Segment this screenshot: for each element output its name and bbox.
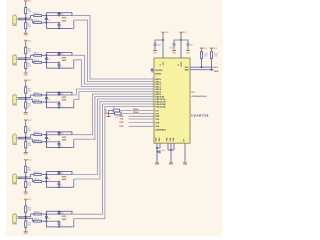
capacitor C5b (top, inside box) — [58, 171, 60, 174]
node filter in+ 6 — [46, 213, 48, 215]
node filter in+ 4 — [46, 134, 48, 136]
svg-text:GND: GND — [169, 164, 174, 166]
wire GND pins down — [156, 143, 158, 150]
svg-text:1n: 1n — [48, 178, 50, 180]
wire EP pin down — [184, 143, 186, 162]
capacitor C6c (bottom, inside box) — [58, 221, 60, 223]
wire node B1 jog down to filter line — [26, 20, 34, 23]
power VCC symbol block 5 — [24, 159, 27, 163]
wire R12 to ground — [25, 227, 27, 230]
svg-text:GND: GND — [24, 233, 29, 235]
svg-text:GND: GND — [155, 164, 160, 166]
capacitor C4b (top, inside box) — [58, 131, 60, 134]
wire R3 to node A2 — [25, 54, 27, 58]
svg-text:1n: 1n — [60, 225, 62, 227]
resistor R23 (series, horizontal bottom) — [34, 101, 42, 103]
svg-text:2k2: 2k2 — [28, 145, 31, 147]
wire block 1 output B to IC pin — [74, 20, 154, 81]
svg-text:10k: 10k — [28, 11, 31, 13]
svg-text:DTR: DTR — [120, 122, 125, 124]
wire rail 2 to C11 — [181, 40, 188, 43]
ground crystal — [107, 116, 111, 117]
wire rail 1 to C9 — [155, 40, 163, 43]
svg-text:XT1: XT1 — [155, 110, 158, 112]
wire node A2 jog up to filter line — [26, 55, 34, 58]
svg-text:XTAL1: XTAL1 — [133, 108, 139, 111]
ground IC 2 — [169, 162, 173, 163]
resistor R2 (mic load, vertical) — [25, 23, 27, 29]
resistor R5 (mic bias, vertical) — [25, 87, 27, 93]
microphone MIC2 — [12, 55, 16, 63]
wire filter line bottom inside 4 — [46, 141, 59, 143]
svg-text:100n: 100n — [169, 47, 173, 49]
svg-text:10k: 10k — [28, 209, 31, 211]
capacitor C1c (bottom, inside box) — [58, 23, 60, 25]
svg-text:ATMEGA328-AU: ATMEGA328-AU — [192, 95, 208, 98]
resistor R16 (series, horizontal top) — [34, 213, 42, 215]
filter network box U5 — [46, 172, 72, 188]
capacitor C6b (top, inside box) — [58, 210, 60, 213]
wire box bottom tap 3 — [72, 100, 74, 108]
wire node B2 to R4 — [25, 60, 27, 63]
svg-text:R14 1k: R14 1k — [34, 132, 40, 134]
node filter in- 5 — [46, 181, 48, 183]
svg-text:X1: X1 — [113, 107, 115, 109]
capacitor C3a (across inputs) — [45, 95, 47, 97]
node B5 — [25, 178, 27, 180]
resistor R13 (series, horizontal top) — [34, 94, 42, 96]
svg-text:AVCC: AVCC — [180, 61, 183, 67]
wire R2 to ground — [25, 29, 27, 32]
wire node B3 jog down to filter line — [26, 99, 34, 102]
wire R4 to ground — [25, 69, 27, 72]
wire MIC2 pin- to node B2 — [18, 59, 26, 61]
svg-text:16M: 16M — [105, 113, 109, 115]
wire R21 to box — [42, 22, 47, 24]
wire MIC3 pin- to node B3 — [18, 98, 26, 100]
power VCC symbol block 4 — [24, 119, 27, 123]
svg-text:1n: 1n — [48, 218, 50, 220]
wire filter line bottom inside 5 — [46, 181, 59, 183]
wire IC SDA to pull-up — [190, 69, 214, 71]
node filter in+ 1 — [46, 15, 48, 17]
wire C10 to ground — [173, 46, 175, 50]
svg-text:DTR: DTR — [155, 122, 160, 124]
wire block 4 output B to IC pin — [74, 97, 154, 140]
svg-text:10k: 10k — [28, 51, 31, 53]
capacitor C2a (across inputs) — [45, 55, 47, 57]
wire R9 to node A5 — [25, 173, 27, 177]
wire R16 to box — [42, 213, 47, 215]
svg-text:R23 1k: R23 1k — [34, 100, 40, 102]
power VCC symbol R13 — [200, 48, 203, 52]
resistor R22 (series, horizontal bottom) — [34, 62, 42, 64]
wire R12 to box — [42, 54, 47, 56]
ground block 6 — [24, 231, 28, 232]
microphone MIC3 — [12, 95, 16, 103]
ground block 5 — [24, 191, 28, 192]
svg-text:RXD: RXD — [155, 116, 160, 118]
wire block 6 output A to IC pin — [72, 104, 154, 214]
wire XTAL2 to IC — [121, 113, 154, 115]
svg-text:18: 18 — [160, 64, 162, 66]
ground C10 — [172, 49, 176, 50]
resistor R15 (series, horizontal top) — [34, 174, 42, 176]
wire MIC5 pin+ to node A5 — [18, 176, 26, 178]
wire VCC to R11 — [25, 203, 27, 206]
svg-text:RI/PD1: RI/PD1 — [155, 73, 161, 75]
svg-text:R16 1k: R16 1k — [34, 212, 40, 214]
wire to ground 2 — [170, 150, 172, 162]
capacitor C1a (across inputs) — [45, 16, 47, 18]
node GND join 2 — [170, 149, 172, 151]
node VCC rail 2 — [180, 39, 182, 41]
capacitor C11 (decoupling) — [187, 44, 190, 45]
svg-text:GND: GND — [183, 164, 188, 166]
wire filter line bottom inside 2 — [46, 61, 59, 63]
capacitor C9 (decoupling) — [154, 44, 157, 45]
svg-text:TXD: TXD — [155, 119, 159, 121]
op IC1 microcontroller body — [154, 58, 190, 143]
wire IC VCC pin to rail — [162, 36, 164, 58]
resistor R1 (mic bias, vertical) — [25, 8, 27, 14]
wire node B1 to R2 — [25, 20, 27, 23]
resistor R3 (mic bias, vertical) — [25, 47, 27, 53]
resistor R7 (mic bias, vertical) — [25, 127, 27, 133]
wire box bottom tap 4 — [72, 139, 74, 147]
node VCC rail 1 — [162, 39, 164, 41]
svg-text:WM61: WM61 — [12, 104, 17, 106]
svg-text:10k: 10k — [214, 55, 217, 57]
svg-text:2k2: 2k2 — [28, 105, 31, 107]
wire R14 to box — [42, 134, 47, 136]
microphone MIC4 — [12, 135, 16, 143]
svg-text:1n: 1n — [60, 106, 62, 108]
wire R14 up — [211, 58, 213, 69]
power VCC symbol 1 — [162, 32, 165, 36]
svg-text:R25 1k: R25 1k — [34, 179, 40, 181]
capacitor C4a (across inputs) — [45, 135, 47, 137]
wire node B6 jog down to filter line — [26, 218, 34, 221]
wire C9 to ground — [154, 46, 156, 50]
node A3 — [25, 97, 27, 99]
filter network box U3 — [46, 92, 72, 108]
wire node A4 jog up to filter line — [26, 135, 34, 138]
wire IC AVCC pin to rail — [180, 36, 182, 58]
wire node B3 to R6 — [25, 99, 27, 102]
wire R5 to node A3 — [25, 93, 27, 97]
node filter in- 2 — [46, 62, 48, 64]
svg-text:1n: 1n — [60, 27, 62, 29]
wire MIC2 pin+ to node A2 — [18, 57, 26, 59]
svg-text:R21 1k: R21 1k — [34, 20, 40, 22]
capacitor C15 (crystal) — [115, 112, 121, 115]
resistor R13 (pull-up) — [200, 52, 202, 59]
svg-text:SCK: SCK — [120, 126, 125, 128]
capacitor C2c (bottom, inside box) — [58, 62, 60, 64]
wire R7 to node A4 — [25, 133, 27, 137]
node filter in- 4 — [46, 141, 48, 143]
node A5 — [25, 176, 27, 178]
wire R24 to box — [42, 141, 47, 143]
ground IC 3 — [183, 162, 187, 163]
svg-text:GND: GND — [24, 154, 29, 156]
capacitor C10 (decoupling) — [173, 44, 176, 45]
ground C11 — [186, 49, 190, 50]
capacitor C3b (top, inside box) — [58, 91, 60, 94]
wire MIC5 pin- to node B5 — [18, 178, 26, 180]
wire MIC1 pin+ to node A1 — [18, 17, 26, 19]
wire XTAL1 to IC — [120, 110, 154, 112]
capacitor C3c (bottom, inside box) — [58, 102, 60, 104]
wire filter line bottom inside 1 — [46, 22, 59, 24]
wire R6 to ground — [25, 108, 27, 111]
wire box bottom tap 1 — [72, 20, 74, 28]
node filter in+ 3 — [46, 94, 48, 96]
microphone MIC1 — [12, 16, 16, 24]
wire block 4 output A to IC pin — [72, 94, 154, 135]
node GND join 1 — [156, 147, 158, 149]
svg-text:WM61: WM61 — [12, 25, 17, 27]
node A1 — [25, 17, 27, 19]
resistor R11 (mic bias, vertical) — [25, 206, 27, 212]
svg-text:XTAL2: XTAL2 — [133, 111, 139, 114]
wire block 6 output B to IC pin — [74, 107, 154, 219]
wire net SCK to IC — [129, 125, 155, 127]
svg-text:10k: 10k — [204, 55, 207, 57]
node pull-up R14 — [211, 69, 213, 71]
wire node A5 jog up to filter line — [26, 174, 34, 177]
wire node B6 to R12 — [25, 218, 27, 221]
wire filter line top inside 1 — [46, 15, 72, 17]
wire R13 to box — [42, 94, 47, 96]
IC1 pin RESET stub — [152, 69, 154, 71]
node B1 — [25, 19, 27, 21]
filter network box U1 — [46, 13, 72, 29]
svg-text:R24 1k: R24 1k — [34, 139, 40, 141]
svg-text:USART28: USART28 — [191, 114, 209, 118]
resistor R24 (series, horizontal bottom) — [34, 141, 42, 143]
svg-text:PD6/OC0A: PD6/OC0A — [155, 105, 166, 108]
wire R23 to box — [42, 101, 47, 103]
svg-text:1n: 1n — [48, 99, 50, 101]
svg-text:XT2: XT2 — [155, 113, 158, 115]
node A2 — [25, 57, 27, 59]
crystal Q1 body — [113, 109, 119, 112]
wire node B2 jog down to filter line — [26, 60, 34, 63]
wire R10 to ground — [25, 188, 27, 191]
capacitor C5a (across inputs) — [45, 174, 47, 176]
svg-text:GND: GND — [24, 193, 29, 195]
node filter in- 6 — [46, 220, 48, 222]
wire node B4 jog down to filter line — [26, 139, 34, 142]
wire VCC to R7 — [25, 124, 27, 127]
svg-text:TXD: TXD — [120, 119, 124, 121]
wire node A6 jog up to filter line — [26, 214, 34, 217]
power VCC symbol R14 — [210, 48, 213, 52]
svg-text:GND: GND — [24, 114, 29, 116]
capacitor C5c (bottom, inside box) — [58, 182, 60, 184]
wire R1 to node A1 — [25, 14, 27, 18]
wire to ground 1 — [156, 151, 158, 162]
capacitor C4c (bottom, inside box) — [58, 142, 60, 144]
svg-text:RO/PD0: RO/PD0 — [155, 70, 162, 72]
ground block 2 — [24, 72, 28, 73]
svg-text:1n: 1n — [60, 185, 62, 187]
capacitor C6a (across inputs) — [45, 214, 47, 216]
resistor R4 (mic load, vertical) — [25, 62, 27, 68]
svg-text:2k2: 2k2 — [28, 224, 31, 226]
svg-text:20: 20 — [178, 64, 180, 66]
resistor R10 (mic load, vertical) — [25, 181, 27, 187]
wire R25 to box — [42, 181, 47, 183]
wire box bottom tap 2 — [72, 60, 74, 68]
wire node A1 jog up to filter line — [26, 16, 34, 19]
wire node B5 to R10 — [25, 179, 27, 182]
wire R8 to ground — [25, 148, 27, 151]
resistor R8 (mic load, vertical) — [25, 142, 27, 148]
wire MIC3 pin+ to node A3 — [18, 97, 26, 99]
power VCC symbol block 3 — [24, 80, 27, 84]
wire node A3 jog up to filter line — [26, 95, 34, 98]
resistor R14 (pull-up) — [210, 52, 212, 59]
svg-text:GND: GND — [159, 137, 161, 142]
wire MIC4 pin- to node B4 — [18, 138, 26, 140]
filter network box U6 — [46, 211, 72, 227]
wire VCC to R9 — [25, 163, 27, 166]
svg-text:1n: 1n — [60, 66, 62, 68]
wire block 3 output A to IC pin — [72, 89, 154, 95]
microphone MIC6 — [12, 214, 16, 222]
node AREF — [156, 151, 158, 153]
schematic sheet background — [7, 0, 223, 236]
svg-text:100n: 100n — [161, 150, 165, 152]
svg-text:1n: 1n — [60, 146, 62, 148]
svg-text:SDA: SDA — [214, 70, 219, 73]
svg-text:R15 1k: R15 1k — [34, 172, 40, 174]
wire block 5 output A to IC pin — [72, 99, 154, 175]
power VCC symbol block 6 — [24, 199, 27, 203]
svg-text:2k2: 2k2 — [28, 66, 31, 68]
svg-text:R13 1k: R13 1k — [34, 92, 40, 94]
svg-text:10k: 10k — [28, 130, 31, 132]
wire block 2 output B to IC pin — [74, 60, 154, 87]
svg-text:GND: GND — [24, 74, 29, 76]
svg-text:10k: 10k — [28, 90, 31, 92]
node filter in+ 5 — [46, 174, 48, 176]
wire IC SCL to pull-up — [190, 66, 214, 68]
wire filter line bottom inside 3 — [46, 101, 59, 103]
wire VCC to R1 — [25, 5, 27, 8]
node A4 — [25, 136, 27, 138]
wire R11 to node A6 — [25, 212, 27, 216]
svg-text:2k2: 2k2 — [28, 26, 31, 28]
resistor R11 (series, horizontal top) — [34, 15, 42, 17]
capacitor C1b (top, inside box) — [58, 12, 60, 15]
svg-text:1n: 1n — [48, 20, 50, 22]
wire VCC to R3 — [25, 44, 27, 47]
svg-text:100n: 100n — [157, 44, 161, 46]
node B3 — [25, 98, 27, 100]
power VCC symbol block 2 — [24, 40, 27, 44]
wire MIC6 pin+ to node A6 — [18, 216, 26, 218]
svg-text:WM61: WM61 — [12, 144, 17, 146]
node B4 — [25, 138, 27, 140]
ground C9 — [153, 49, 157, 50]
svg-text:R26 1k: R26 1k — [34, 219, 40, 221]
node B2 — [25, 59, 27, 61]
wire filter line top inside 6 — [46, 213, 72, 215]
ground IC 1 — [155, 162, 159, 163]
wire node B4 to R8 — [25, 139, 27, 142]
wire block 2 output A to IC pin — [72, 55, 154, 84]
wire net RXD to IC — [129, 115, 155, 117]
svg-text:SDA: SDA — [185, 69, 190, 72]
wire block 5 output B to IC pin — [74, 102, 154, 180]
wire filter line top inside 5 — [46, 173, 72, 175]
resistor R26 (series, horizontal bottom) — [34, 220, 42, 222]
svg-text:GND: GND — [156, 137, 158, 142]
wire block 3 output B to IC pin — [74, 92, 154, 100]
svg-text:R22 1k: R22 1k — [34, 60, 40, 62]
resistor R6 (mic load, vertical) — [25, 102, 27, 108]
svg-text:10u: 10u — [190, 44, 193, 46]
node B6 — [25, 217, 27, 219]
wire filter line top inside 3 — [46, 94, 72, 96]
wire R26 to box — [42, 220, 47, 222]
resistor R14 (series, horizontal top) — [34, 134, 42, 136]
svg-text:2k2: 2k2 — [28, 185, 31, 187]
svg-text:RXD: RXD — [120, 116, 125, 118]
wire R11 to box — [42, 15, 47, 17]
svg-text:WM61: WM61 — [12, 223, 17, 225]
node pull-up R13 — [201, 66, 203, 68]
capacitor C12 (AREF) — [157, 151, 158, 153]
wire rail 2 to C10 — [174, 40, 181, 43]
node filter in- 3 — [46, 101, 48, 103]
wire filter line bottom inside 6 — [46, 220, 59, 222]
microphone MIC5 — [12, 175, 16, 183]
resistor R12 (series, horizontal top) — [34, 54, 42, 56]
wire VCC to R5 — [25, 84, 27, 87]
wire R15 to box — [42, 173, 47, 175]
filter network box U4 — [46, 132, 72, 148]
filter network box U2 — [46, 53, 72, 69]
wire net TXD to IC — [129, 118, 155, 120]
wire R13 up — [201, 58, 203, 67]
wire crystal left join — [111, 110, 114, 112]
svg-text:10k: 10k — [28, 170, 31, 172]
svg-text:R12 1k: R12 1k — [34, 53, 40, 55]
wire net DTR to IC — [129, 122, 155, 124]
wire MIC4 pin+ to node A4 — [18, 136, 26, 138]
ground block 4 — [24, 151, 28, 152]
resistor R12 (mic load, vertical) — [25, 221, 27, 227]
ground block 3 — [24, 112, 28, 113]
svg-text:WM61: WM61 — [12, 65, 17, 67]
wire node B5 jog down to filter line — [26, 179, 34, 182]
wire VSS pins down — [167, 143, 169, 150]
wire filter line top inside 4 — [46, 134, 72, 136]
power VCC symbol block 1 — [24, 0, 27, 4]
node filter in- 1 — [46, 22, 48, 24]
resistor R9 (mic bias, vertical) — [25, 166, 27, 172]
resistor R25 (series, horizontal bottom) — [34, 181, 42, 183]
svg-text:C15: C15 — [115, 117, 118, 119]
wire box bottom tap 5 — [72, 179, 74, 187]
svg-text:GND: GND — [24, 35, 29, 37]
svg-text:1n: 1n — [48, 59, 50, 61]
